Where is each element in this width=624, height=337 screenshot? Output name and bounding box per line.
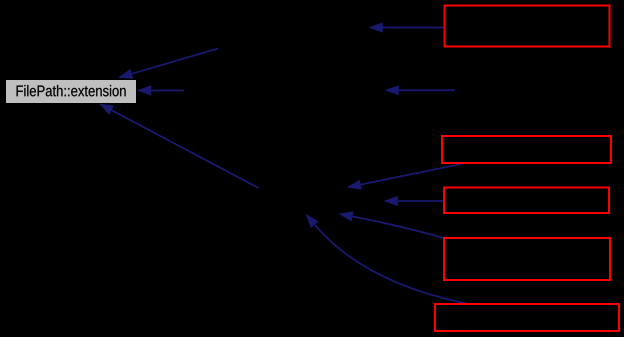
wire arrow E8 <box>339 211 445 238</box>
edge: top caller box to hidden node <box>369 22 446 32</box>
node box R3 (red, label hidden) <box>444 188 609 214</box>
node box R4 (red, label hidden) <box>444 238 610 280</box>
wire arrow E4 <box>385 85 456 95</box>
node box R1 (red, label hidden) <box>445 6 610 47</box>
node FilePath::extension (current, grey) <box>6 80 136 103</box>
node box R2 (red, label hidden) <box>442 136 611 163</box>
wire arrow E3 hidden node to FilePath::extension <box>137 85 184 95</box>
node box R5 (red, label hidden) <box>435 304 619 331</box>
wire arrow E6 <box>347 163 465 189</box>
wire arrow E2 hidden-top-node to FilePath::extension <box>118 49 218 79</box>
wire arrow E7 <box>384 196 445 206</box>
wire arrow E5 hidden mid node to FilePath::extension <box>99 104 259 189</box>
wire arrow E9 <box>306 214 470 304</box>
